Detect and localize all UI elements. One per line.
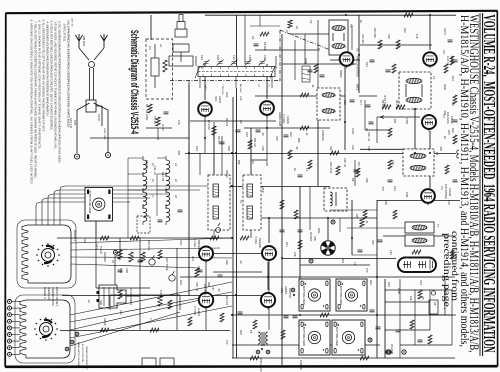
svg-text:C20 5: C20 5 [443, 28, 447, 35]
svg-text:V5: V5 [446, 252, 450, 256]
svg-text:V10: V10 [214, 96, 218, 102]
pilot lamp / AC terminals [386, 350, 390, 354]
IF can T1 (1st AM IF) [329, 20, 348, 55]
svg-text:L2: L2 [159, 44, 163, 48]
svg-text:.047: .047 [381, 186, 385, 192]
svg-text:R15 470K: R15 470K [329, 162, 333, 174]
svg-text:C9: C9 [353, 262, 357, 266]
tube V3 FM-AM IF 12BA6 [422, 115, 436, 132]
wire bus network [57, 15, 460, 365]
svg-text:FRONT OF SET: FRONT OF SET [55, 287, 59, 306]
svg-text:V11: V11 [280, 288, 284, 293]
tube V10B DRIVER [262, 246, 276, 263]
svg-text:C19: C19 [275, 136, 279, 141]
svg-text:IF 10.7MC: IF 10.7MC [383, 95, 387, 107]
tube socket T2 BOTTOM VIEW [299, 279, 330, 311]
svg-text:R14: R14 [451, 76, 455, 81]
svg-text:R30: R30 [239, 330, 243, 335]
svg-text:R15: R15 [447, 130, 451, 135]
svg-text:V2: V2 [442, 50, 446, 54]
svg-text:56K: 56K [207, 282, 211, 287]
svg-text:ON AMP: ON AMP [390, 344, 394, 354]
svg-text:.005: .005 [177, 150, 181, 156]
svg-text:R12 1M: R12 1M [161, 172, 165, 181]
svg-text:C22: C22 [351, 145, 355, 150]
svg-text:C2 33: C2 33 [97, 114, 101, 121]
svg-text:DIAL: DIAL [317, 228, 321, 234]
svg-text:6AL5: 6AL5 [454, 254, 458, 261]
svg-text:SPECIFIED.: SPECIFIED. [63, 20, 67, 42]
svg-text:C1D: C1D [248, 55, 252, 60]
svg-text:S1C: S1C [119, 310, 123, 315]
volume control & tone pots [142, 223, 220, 366]
svg-text:C1E: C1E [263, 55, 267, 60]
svg-text:T7 BOTTOM VIEW: T7 BOTTOM VIEW [88, 191, 92, 214]
svg-text:R24: R24 [179, 280, 183, 285]
AM antenna forks and lead-in [76, 34, 109, 153]
svg-text:.02: .02 [251, 160, 255, 164]
svg-text:12AU6: 12AU6 [448, 188, 452, 196]
svg-text:FM LIMITER: FM LIMITER [444, 184, 448, 199]
svg-text:R12: R12 [403, 28, 407, 33]
svg-text:100K: 100K [321, 130, 325, 136]
svg-text:C1A: C1A [200, 55, 204, 60]
svg-text:C16 .01: C16 .01 [367, 132, 371, 142]
svg-text:R9: R9 [351, 178, 355, 182]
svg-text:C8: C8 [239, 120, 243, 124]
svg-text:H-M1815/A/B, H-M1910, H-M1911,: H-M1815/A/B, H-M1910, H-M1911, H-M1913, … [458, 15, 472, 347]
svg-text:10K: 10K [409, 296, 413, 301]
svg-text:.01: .01 [311, 84, 315, 88]
tube socket T6 BOTTOM VIEW [299, 320, 330, 355]
svg-text:AUDIO AMP: AUDIO AMP [278, 112, 282, 127]
svg-text:R36: R36 [355, 214, 359, 219]
tube V2 AM IF 12BA6 [423, 52, 437, 68]
svg-text:R14: R14 [365, 62, 369, 67]
svg-text:½ V10A: ½ V10A [193, 238, 197, 247]
svg-text:12AD6: 12AD6 [286, 116, 289, 124]
svg-text:.001: .001 [341, 258, 345, 264]
svg-text:R1 100K: R1 100K [145, 110, 149, 120]
FM telescopic antenna [173, 15, 189, 63]
tube V5 FM DET 6AL5 (pill) [398, 258, 436, 273]
svg-text:.05: .05 [295, 146, 299, 150]
svg-text:VIEWED FROM FRONT: VIEWED FROM FRONT [85, 346, 87, 370]
svg-text:470K: 470K [304, 58, 308, 64]
svg-text:C11 .01: C11 .01 [153, 166, 157, 175]
svg-text:C37: C37 [211, 286, 215, 291]
svg-text:BAND SWITCH SHOWN: BAND SWITCH SHOWN [77, 342, 80, 367]
svg-text:300Ω TWIN: 300Ω TWIN [103, 128, 105, 140]
tube V4 FM LIMITER 12AU6 [421, 189, 435, 205]
svg-text:L ANT: L ANT [204, 84, 207, 91]
svg-text:T4 BOTTOM VIEW: T4 BOTTOM VIEW [339, 282, 343, 305]
svg-text:C35 .02: C35 .02 [195, 282, 199, 292]
svg-text:(REAR) AS: (REAR) AS [47, 287, 51, 300]
tuning gang capacitor C1 [195, 60, 277, 89]
svg-text:C3: C3 [148, 46, 152, 50]
V3 grid network [359, 96, 420, 143]
limiter/discriminator coupling [330, 210, 405, 255]
tube socket T5 BOTTOM VIEW [332, 320, 365, 355]
svg-text:47K: 47K [447, 200, 451, 205]
svg-text:R11 1M: R11 1M [253, 138, 257, 147]
svg-text:C28: C28 [125, 268, 129, 273]
svg-text:R7: R7 [317, 48, 321, 52]
svg-text:C36: C36 [391, 160, 395, 165]
svg-text:FM DET: FM DET [309, 232, 313, 242]
svg-text:C40: C40 [389, 250, 393, 255]
svg-text:C14: C14 [191, 256, 195, 261]
FM IF can left upper [317, 88, 340, 120]
svg-text:.01: .01 [305, 132, 309, 136]
tube V11A AUDIO OUTPUT [199, 293, 213, 310]
fuse box bottom right [429, 291, 438, 314]
svg-text:.05: .05 [421, 296, 425, 300]
svg-text:1K: 1K [293, 168, 297, 171]
component value labels [95, 58, 437, 306]
svg-text:TO AM: TO AM [99, 246, 103, 254]
svg-text:½ V10: ½ V10 [254, 236, 258, 245]
svg-text:Schematic Diagram of Chassis V: Schematic Diagram of Chassis V-2515-4 [128, 30, 140, 134]
svg-text:R26: R26 [225, 260, 229, 265]
svg-text:C4: C4 [251, 36, 255, 40]
switch wiring fan [36, 186, 232, 346]
svg-text:C7: C7 [161, 128, 165, 132]
svg-text:R42: R42 [369, 280, 373, 285]
push-pull coupling wires [206, 254, 269, 331]
svg-text:C23: C23 [321, 136, 325, 141]
svg-text:C17: C17 [95, 244, 99, 249]
svg-text:1K: 1K [443, 136, 447, 139]
oscillator coil L10 [302, 66, 310, 82]
svg-text:V1: V1 [356, 48, 360, 52]
svg-text:.01: .01 [365, 220, 369, 224]
svg-text:R27 TONE: R27 TONE [165, 258, 169, 271]
dipole terminal box [169, 56, 193, 66]
svg-text:C18: C18 [387, 34, 391, 39]
svg-text:B+: B+ [359, 20, 363, 24]
svg-text:33K: 33K [329, 146, 333, 151]
resistors and capacitors scatter [100, 13, 458, 360]
tube socket T7 BOTTOM VIEW [85, 188, 113, 222]
svg-text:8. ARROWS ON CONTROLS INDICATE: 8. ARROWS ON CONTROLS INDICATE CW ROTATI… [30, 20, 34, 185]
tube V10A AUDIO AMP [260, 101, 274, 117]
svg-text:150K: 150K [397, 288, 401, 294]
svg-text:AM OSC: AM OSC [239, 84, 242, 93]
svg-text:.005: .005 [443, 110, 447, 116]
svg-text:VOL: VOL [179, 240, 183, 246]
svg-text:47K: 47K [177, 120, 181, 125]
svg-text:DRIVER: DRIVER [258, 238, 262, 248]
svg-text:AM ANT: AM ANT [82, 36, 86, 47]
svg-text:AUTO: AUTO [218, 96, 222, 103]
svg-text:.02: .02 [261, 132, 265, 136]
svg-text:C25 .02: C25 .02 [343, 158, 347, 168]
bus wire labels [99, 20, 451, 372]
svg-text:C42: C42 [371, 240, 375, 245]
svg-text:10.7: 10.7 [359, 100, 363, 106]
svg-text:470: 470 [225, 340, 229, 345]
converter section verticals [196, 15, 360, 238]
svg-text:R3 2.2M: R3 2.2M [207, 120, 211, 130]
svg-text:T FM OSC: T FM OSC [221, 84, 223, 95]
svg-text:220K: 220K [265, 160, 269, 166]
notes list [30, 18, 73, 185]
svg-text:V4: V4 [440, 186, 444, 190]
output transformer T8 [258, 332, 268, 346]
svg-text:2.2K: 2.2K [119, 268, 123, 274]
svg-text:T2 BOTTOM VIEW: T2 BOTTOM VIEW [302, 282, 306, 305]
svg-text:½ V10A: ½ V10A [282, 114, 286, 123]
svg-text:455KC: 455KC [225, 170, 229, 178]
svg-text:ANT.: ANT. [73, 120, 77, 126]
svg-text:½ V11A: ½ V11A [193, 306, 197, 315]
svg-text:68K: 68K [297, 138, 301, 143]
svg-text:C13: C13 [245, 132, 249, 137]
volume and tone controls [96, 216, 180, 310]
converter top cluster [250, 15, 292, 46]
svg-text:IN F.M. POSITION: IN F.M. POSITION [81, 344, 83, 362]
svg-text:C2: C2 [351, 62, 355, 66]
svg-text:AM RF: AM RF [103, 318, 107, 326]
svg-text:R9 33K: R9 33K [395, 100, 399, 109]
svg-text:.005: .005 [393, 118, 397, 124]
svg-text:VIEWED FROM: VIEWED FROM [51, 287, 55, 306]
svg-text:R6: R6 [433, 302, 437, 306]
svg-text:R10 22K: R10 22K [373, 28, 377, 38]
svg-text:AM CONVERTER: AM CONVERTER [356, 56, 360, 77]
svg-text:R25 VOL: R25 VOL [147, 240, 151, 251]
discriminator coil dashed box [324, 188, 347, 211]
svg-text:R38: R38 [384, 200, 388, 205]
svg-text:6.8K: 6.8K [405, 192, 409, 198]
svg-text:C24: C24 [195, 146, 199, 151]
svg-text:T5 BOTTOM VIEW: T5 BOTTOM VIEW [335, 323, 339, 346]
svg-text:POWER: POWER [299, 360, 303, 370]
svg-text:C8 .05: C8 .05 [217, 136, 221, 144]
svg-text:33K: 33K [365, 178, 369, 183]
svg-text:AM IF: AM IF [261, 186, 265, 193]
FM tuner dashed enclosure [146, 39, 173, 99]
svg-text:T3: T3 [349, 24, 353, 28]
svg-text:115V.AC.60~: 115V.AC.60~ [259, 358, 263, 372]
svg-text:S1A: S1A [83, 238, 87, 243]
svg-text:C21: C21 [393, 186, 397, 191]
ratio detector transformer [405, 222, 434, 246]
svg-text:C1B: C1B [216, 55, 220, 60]
IF can mid (T2) dashed pair [208, 175, 261, 230]
svg-text:47K: 47K [415, 34, 419, 39]
FM tuner inner parts [146, 104, 172, 140]
bandswitch coil array [128, 156, 170, 238]
power supply wiring bottom right [385, 279, 452, 358]
choke right edge [457, 150, 459, 158]
svg-text:.02: .02 [239, 260, 243, 264]
svg-text:T6 BOTTOM VIEW: T6 BOTTOM VIEW [302, 323, 306, 346]
svg-text:L10: L10 [239, 96, 243, 101]
tube V10 AUDIO 12AE10 [198, 102, 212, 118]
svg-text:C5 .02: C5 .02 [153, 116, 157, 124]
band switch wafer S2 [15, 295, 75, 363]
svg-text:C30: C30 [367, 146, 371, 151]
svg-text:T4: T4 [432, 76, 436, 80]
audio section verticals [115, 237, 177, 330]
svg-text:.02: .02 [217, 288, 221, 292]
tube V1 AM CONV 6BE6 [340, 52, 354, 68]
mid band labels [245, 28, 455, 174]
svg-text:R16: R16 [451, 128, 455, 133]
svg-text:JULY 30: JULY 30 [71, 18, 73, 27]
switch terminal strip [8, 300, 21, 357]
V10 tube lower connections [205, 115, 267, 160]
svg-text:.005: .005 [439, 146, 443, 152]
svg-text:WAFER 2: WAFER 2 [43, 287, 47, 299]
svg-text:S1B: S1B [99, 300, 103, 305]
svg-text:R19 220: R19 220 [103, 252, 107, 262]
tube V11 AUDIO OUTPUT [261, 293, 275, 310]
svg-text:455KC: 455KC [339, 70, 343, 78]
svg-text:R21: R21 [387, 282, 391, 287]
svg-text:R17: R17 [285, 242, 289, 247]
svg-text:R31 470K: R31 470K [203, 284, 207, 296]
dial drum wheel [321, 241, 335, 255]
svg-text:WAFER 1: WAFER 1 [73, 230, 76, 242]
svg-text:220K: 220K [443, 84, 447, 90]
svg-text:C38: C38 [313, 236, 317, 241]
svg-text:R13: R13 [289, 132, 293, 137]
svg-text:470: 470 [365, 268, 369, 273]
svg-text:6BE6: 6BE6 [356, 84, 360, 91]
svg-text:C14 100: C14 100 [361, 34, 365, 44]
IF can T4 (2nd AM IF) [399, 72, 431, 109]
svg-text:R16: R16 [227, 146, 231, 151]
svg-text:C15: C15 [343, 100, 347, 105]
svg-text:C34: C34 [225, 300, 229, 305]
svg-text:R5 22K: R5 22K [263, 42, 267, 51]
svg-text:AUDIO: AUDIO [197, 308, 200, 316]
svg-text:1200: 1200 [405, 118, 409, 124]
svg-text:C26: C26 [261, 146, 265, 151]
svg-text:R2: R2 [145, 104, 149, 108]
svg-text:VOLUME R-24, MOST-OFTEN-NEEDE: VOLUME R-24, MOST-OFTEN-NEEDED 1964 RADI… [480, 15, 499, 353]
IF can T5 (3rd IF) [403, 149, 434, 176]
svg-text:R17: R17 [357, 162, 361, 167]
svg-text:2.2M: 2.2M [351, 128, 355, 134]
header rule lines [479, 13, 481, 356]
svg-text:AUDIO: AUDIO [284, 286, 288, 294]
mechanical linkage (dash-dot) [170, 30, 338, 160]
svg-text:T6: T6 [435, 152, 439, 156]
svg-text:C1C: C1C [232, 55, 236, 60]
svg-text:R4 470: R4 470 [225, 118, 229, 127]
svg-text:C44: C44 [419, 280, 423, 285]
tube socket T4 BOTTOM VIEW [336, 279, 367, 311]
tube V10A DRIVER [199, 247, 213, 264]
svg-text:P1 PHONO: P1 PHONO [129, 288, 133, 301]
svg-text:C6: C6 [309, 20, 313, 24]
svg-text:12K: 12K [293, 252, 297, 257]
band switch wafer S1 [17, 220, 76, 288]
svg-text:68K: 68K [237, 160, 241, 165]
svg-text:T7: T7 [436, 224, 440, 228]
svg-text:DRIVER: DRIVER [197, 240, 200, 250]
svg-text:OSC: OSC [225, 92, 229, 98]
svg-text:preceding page.: preceding page. [441, 233, 451, 310]
phono jack P1 [97, 285, 127, 308]
svg-text:1.5M: 1.5M [197, 266, 201, 272]
svg-text:EXT. F.M.: EXT. F.M. [69, 118, 73, 129]
